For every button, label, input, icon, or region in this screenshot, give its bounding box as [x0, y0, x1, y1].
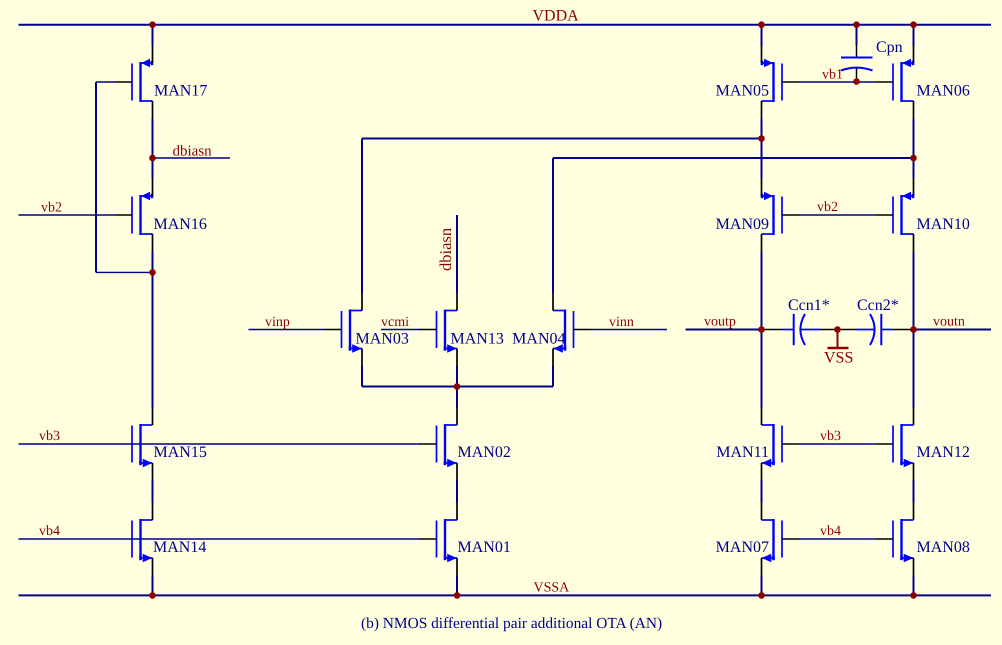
- svg-text:vcmi: vcmi: [381, 315, 409, 330]
- wire: dbiasn stub: [153, 157, 231, 159]
- wire: vb4 between gates: [799, 538, 876, 540]
- transistor MAN09: [762, 179, 800, 252]
- svg-text:MAN11: MAN11: [716, 444, 769, 461]
- node wire2 junction: [910, 155, 917, 162]
- wire: dbiasn node to MAN16 drain: [152, 158, 154, 179]
- wire: voutn: [914, 329, 992, 331]
- wire: tail horizontal: [362, 386, 553, 388]
- wire: MAN10 source to voutn node: [913, 252, 915, 330]
- wire: vb3 between gates: [799, 443, 876, 445]
- wire: MAN17 gate horizontal: [96, 81, 115, 83]
- wire: MAN14 source to VSSA: [152, 576, 154, 596]
- wire: VSS node to Ccn2: [838, 329, 856, 331]
- wire: vb3 input to MAN15 and MAN02: [19, 443, 421, 445]
- node VDDA / MAN06: [910, 21, 917, 28]
- node VSSA / left stack: [149, 592, 156, 599]
- svg-text:Cpn: Cpn: [876, 39, 903, 56]
- svg-text:VSS: VSS: [824, 350, 853, 367]
- node tail node: [454, 383, 461, 390]
- wire: vb1 between gates: [799, 81, 876, 83]
- transistor MAN08: [876, 503, 914, 576]
- node dbiasn: [149, 155, 156, 162]
- wire: VDDA to MAN06 drain: [913, 25, 915, 46]
- wire: VDDA to MAN17 drain: [152, 25, 154, 46]
- ground rail VSSA: [19, 594, 992, 596]
- wire: voutp: [686, 329, 762, 331]
- svg-text:vb4: vb4: [39, 524, 60, 539]
- wire: MAN08 source to VSSA: [913, 576, 915, 596]
- ground symbol VSS: [828, 330, 849, 349]
- svg-text:MAN04: MAN04: [512, 331, 565, 348]
- svg-text:voutp: voutp: [704, 315, 736, 330]
- wire: VDDA to MAN05 drain: [761, 25, 763, 46]
- svg-text:Ccn2*: Ccn2*: [857, 297, 899, 314]
- wire: MAN15 source to MAN14 drain: [152, 481, 154, 503]
- svg-text:vinn: vinn: [609, 315, 634, 330]
- node voutp: [758, 326, 765, 333]
- wire: MAN17 gate feedback vertical: [95, 82, 97, 272]
- wire: voutp node to MAN11 drain: [761, 330, 763, 408]
- wire: Ccn2 to voutn node: [893, 329, 914, 331]
- svg-text:vb3: vb3: [820, 429, 841, 444]
- svg-text:vinp: vinp: [265, 315, 290, 330]
- capacitor Ccn1: [782, 314, 820, 345]
- transistor MAN03: [325, 293, 363, 366]
- transistor MAN11: [762, 408, 800, 481]
- transistor MAN01: [420, 503, 458, 576]
- node VSSA / MAN07: [758, 592, 765, 599]
- svg-text:MAN10: MAN10: [917, 216, 970, 233]
- wire: MAN09 source to voutp node: [761, 252, 763, 330]
- transistor MAN04: [553, 293, 591, 366]
- wire: wire2 MAN06 source to MAN04 drain: [553, 157, 914, 159]
- svg-text:dbiasn: dbiasn: [436, 228, 455, 271]
- node VDDA / Cpn: [853, 21, 860, 28]
- svg-text:MAN17: MAN17: [154, 83, 207, 100]
- wire: vb2 input: [19, 214, 116, 216]
- svg-text:MAN14: MAN14: [153, 539, 206, 556]
- wire: vinn input: [591, 329, 668, 331]
- svg-text:MAN09: MAN09: [716, 216, 769, 233]
- transistor MAN16: [115, 179, 153, 252]
- wire: MAN01 source to VSSA: [456, 576, 458, 596]
- svg-text:MAN16: MAN16: [154, 216, 207, 233]
- node VSS / capacitors: [834, 326, 841, 333]
- wire: MAN04 source down: [552, 366, 554, 387]
- wire: wire2 node to MAN10 drain: [913, 158, 915, 179]
- node voutn: [910, 326, 917, 333]
- wire: vcmi to MAN13 gate: [381, 329, 420, 331]
- transistor MAN02: [420, 408, 458, 481]
- node wire1 junction: [758, 135, 765, 142]
- wire: MAN11 source to MAN07 drain: [761, 481, 763, 503]
- node VDDA / left stack: [149, 21, 156, 28]
- svg-text:voutn: voutn: [933, 315, 965, 330]
- transistor MAN06: [876, 46, 914, 119]
- svg-text:vb4: vb4: [820, 524, 841, 539]
- svg-text:vb2: vb2: [817, 200, 838, 215]
- wire: MAN12 source to MAN08 drain: [913, 481, 915, 503]
- svg-text:MAN03: MAN03: [356, 331, 409, 348]
- svg-text:Ccn1*: Ccn1*: [788, 297, 830, 314]
- wire: MAN13 drain dbiasn stub vertical: [456, 215, 458, 293]
- wire: MAN17 source to dbiasn node: [152, 119, 154, 159]
- transistor MAN10: [876, 179, 914, 252]
- transistor MAN15: [132, 408, 153, 481]
- svg-text:MAN05: MAN05: [716, 83, 769, 100]
- wire: MAN16 source down to node: [152, 252, 154, 273]
- wire: voutn node to MAN12 drain: [913, 330, 915, 408]
- wire: vb2 between gates: [799, 214, 876, 216]
- svg-text:MAN12: MAN12: [917, 444, 970, 461]
- transistor MAN12: [876, 408, 914, 481]
- wire: wire1 node to MAN09 drain: [761, 139, 763, 179]
- wire: MAN13 source to tail node: [456, 366, 458, 387]
- svg-text:MAN01: MAN01: [458, 539, 511, 556]
- wire: wire1 MAN05 source to MAN03 drain: [362, 138, 762, 140]
- wire: node to MAN15 drain: [152, 272, 154, 407]
- power rail VDDA: [19, 24, 992, 26]
- node VSSA / MAN01: [454, 592, 461, 599]
- transistor MAN05: [762, 46, 800, 119]
- wire: MAN03 drain up: [361, 139, 363, 294]
- svg-text:MAN15: MAN15: [154, 444, 207, 461]
- wire: tail node down to MAN02 drain: [456, 387, 458, 408]
- svg-text:vb2: vb2: [41, 201, 62, 216]
- svg-text:MAN08: MAN08: [917, 539, 970, 556]
- wire: MAN04 drain up: [552, 158, 554, 293]
- node left stack / feedback: [149, 269, 156, 276]
- wire: vb4 input to MAN14 and MAN01: [19, 538, 421, 540]
- transistor MAN17: [115, 46, 153, 119]
- capacitor Cpn: [841, 25, 873, 82]
- svg-text:dbiasn: dbiasn: [173, 144, 213, 160]
- node VSSA / MAN08: [910, 592, 917, 599]
- svg-text:MAN13: MAN13: [451, 331, 504, 348]
- wire: feedback to node horizontal: [96, 271, 153, 273]
- wire: MAN07 source to VSSA: [761, 576, 763, 596]
- svg-text:MAN02: MAN02: [458, 444, 511, 461]
- node vb1 / Cpn: [853, 78, 860, 85]
- wire: MAN02 source to MAN01 drain: [456, 481, 458, 503]
- svg-text:vb1: vb1: [822, 68, 843, 83]
- wire: vinp input: [249, 329, 325, 331]
- wire: MAN03 source down: [361, 366, 363, 387]
- svg-text:MAN06: MAN06: [917, 83, 970, 100]
- svg-text:(b) NMOS differential pair add: (b) NMOS differential pair additional OT…: [361, 615, 662, 632]
- wire: MAN05 source to wire1 node: [761, 119, 763, 139]
- svg-text:VSSA: VSSA: [534, 581, 571, 596]
- wire: MAN06 source to wire2 node: [913, 119, 915, 159]
- svg-text:MAN07: MAN07: [716, 539, 769, 556]
- wire: Ccn1 to VSS node: [820, 329, 838, 331]
- transistor MAN07: [762, 503, 800, 576]
- wire: voutp node to Ccn1: [762, 329, 783, 331]
- transistor MAN14: [132, 503, 153, 576]
- transistor MAN13: [420, 293, 458, 366]
- capacitor Ccn2: [856, 314, 894, 345]
- svg-text:vb3: vb3: [39, 429, 60, 444]
- svg-text:VDDA: VDDA: [533, 8, 580, 25]
- node VDDA / MAN05: [758, 21, 765, 28]
